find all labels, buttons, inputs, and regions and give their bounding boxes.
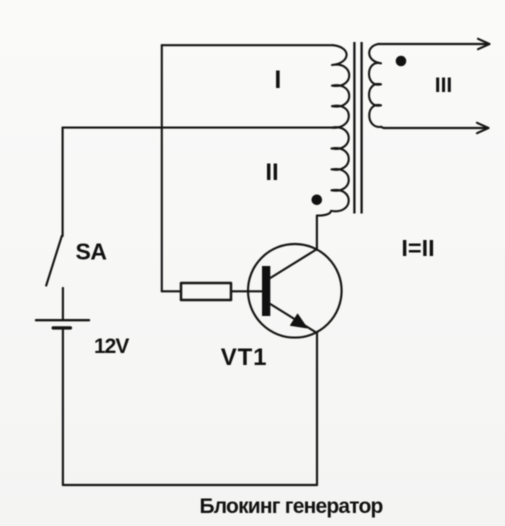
arrowhead bottom output (477, 123, 489, 133)
wire switch lower to battery (62, 288, 64, 319)
battery GB long plate (36, 319, 89, 321)
transformer winding III (369, 44, 385, 128)
wire collector up to winding II (316, 216, 318, 250)
svg-text:SA: SA (76, 239, 107, 265)
svg-text:12V: 12V (94, 335, 129, 358)
transformer core line left (353, 42, 355, 214)
wire winding III top output (378, 43, 487, 45)
svg-text:II: II (265, 159, 278, 186)
transformer winding II (317, 127, 349, 215)
wire top horizontal (left rail top to winding I top) (162, 44, 333, 46)
transistor VT1 base bar (262, 266, 270, 316)
svg-text:III: III (435, 74, 453, 97)
transistor VT1 collector stroke (270, 250, 317, 279)
wire battery down left rail (62, 330, 64, 486)
wire switch upper (62, 128, 64, 236)
wire resistor to base (231, 290, 262, 292)
svg-text:I=II: I=II (401, 235, 434, 261)
transistor VT1 emitter arrow (291, 314, 307, 328)
wire junction I-II to switch rail (63, 127, 332, 129)
wire emitter down to bottom rail (316, 333, 318, 485)
resistor R1 body (181, 283, 231, 300)
phase dot winding III (396, 56, 407, 67)
phase dot winding II (312, 195, 323, 206)
transformer core line right (360, 42, 362, 214)
wire winding III bottom output (384, 127, 486, 129)
switch SA blade (46, 236, 62, 286)
wire bottom rail (63, 484, 317, 486)
wire left vertical (top corner down to resistor) (161, 45, 163, 291)
svg-text:Блокинг генератор: Блокинг генератор (200, 495, 383, 518)
svg-text:VT1: VT1 (221, 344, 268, 371)
transformer winding I (332, 45, 350, 128)
transistor VT1 emitter stroke (270, 304, 318, 334)
battery GB short plate (53, 326, 70, 329)
svg-text:I: I (274, 66, 281, 94)
wire resistor left lead (162, 290, 181, 292)
arrowhead top output (478, 39, 490, 49)
transistor VT1 circle (248, 244, 342, 338)
